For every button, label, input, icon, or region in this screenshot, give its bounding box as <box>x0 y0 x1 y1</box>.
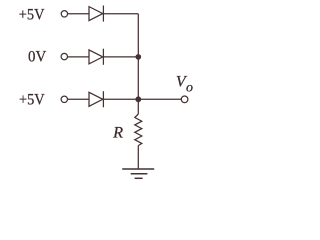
wire D3 to bus <box>103 98 138 100</box>
junction node at D2 <box>136 55 140 59</box>
bus wire (vertical) <box>137 14 139 114</box>
svg-text:0V: 0V <box>28 49 47 66</box>
wire input1 to diode D1 <box>68 13 89 15</box>
resistor R (zigzag) <box>135 114 142 146</box>
output terminal circle <box>181 96 188 103</box>
ground <box>122 169 154 178</box>
terminal circle input 1 <box>61 11 67 17</box>
label Vo <box>176 74 193 96</box>
diode D1 <box>89 6 103 22</box>
svg-text:+5V: +5V <box>19 91 45 108</box>
wire D1 to bus <box>103 13 138 15</box>
diode D3 <box>89 91 103 107</box>
wire to output terminal <box>138 98 181 100</box>
wire D2 to bus <box>103 56 138 58</box>
svg-text:+5V: +5V <box>19 7 45 24</box>
wire input3 to diode D3 <box>68 98 90 100</box>
wire input2 to diode D2 <box>68 56 90 58</box>
terminal circle input 3 <box>61 96 67 102</box>
terminal circle input 2 <box>61 53 67 59</box>
svg-text:o: o <box>186 81 193 96</box>
junction node at D3 / output <box>136 97 141 102</box>
svg-text:R: R <box>112 123 123 142</box>
wire resistor to ground <box>137 146 139 169</box>
diode D2 <box>89 49 103 65</box>
